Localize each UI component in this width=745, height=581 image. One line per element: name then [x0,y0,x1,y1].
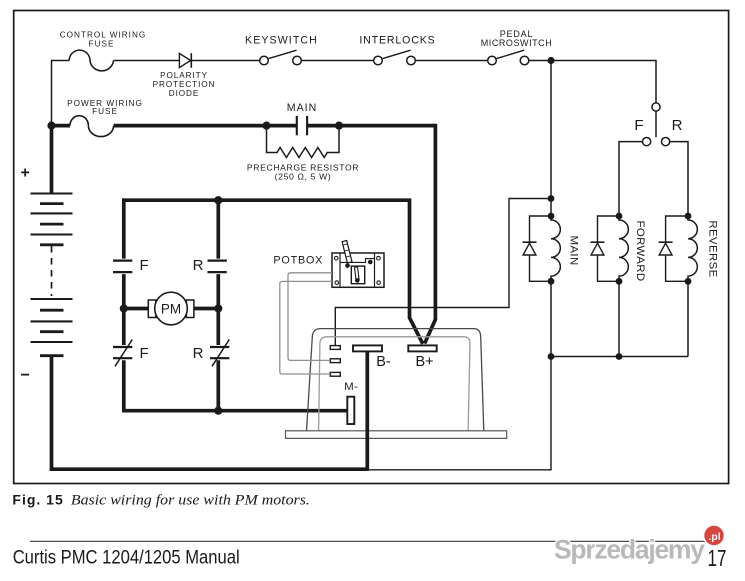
watermark logo circle pl [704,525,725,546]
wire bridge right middle [216,274,220,345]
label CONTROL WIRING FUSE [60,31,146,49]
svg-text:R: R [672,117,683,134]
wire bridge right lower [216,360,220,410]
svg-text:KEYSWITCH: KEYSWITCH [245,35,318,47]
wire main contact to B+ drop [307,124,435,128]
wire bridge bottom to M- [122,409,347,413]
wire B+ right drop [425,124,436,344]
wire B- riser [365,351,369,471]
diode FORWARD freewheel [591,216,620,281]
contact F upper [113,261,132,273]
wire down to FR selector [655,60,657,103]
node PM left [120,304,128,312]
node return bus forward [616,353,623,360]
node KSI junction [547,57,554,64]
wire bridge top bus [122,200,423,344]
wire power bus left [50,124,70,128]
label POWER WIRING FUSE [67,99,143,116]
svg-text:DIODE: DIODE [169,89,199,98]
terminal M- [347,397,354,424]
diode MAIN freewheel [523,216,552,281]
svg-text:M-: M- [344,381,358,393]
wire PM right stub [194,307,219,311]
wire power bus to main contact [114,124,297,128]
border frame [14,11,729,484]
wire KSI vertical [550,61,552,217]
controller inner shell [319,337,470,431]
svg-text:B-: B- [376,354,391,370]
svg-text:Fig. 15: Fig. 15 [12,492,63,508]
coil MAIN contactor [548,213,561,357]
fuse power wiring [70,116,114,137]
svg-text:R: R [193,345,204,362]
label PRECHARGE RESISTOR [247,163,359,182]
svg-text:Basic wiring for use with PM m: Basic wiring for use with PM motors. [71,492,310,509]
wire diode to keyswitch [192,60,260,62]
wire keyswitch to interlocks [301,60,373,62]
svg-text:17: 17 [708,545,727,571]
switch pedal microswitch [488,50,529,65]
wire potbox to pin2 [288,273,332,361]
node return bus left [548,353,555,360]
battery [31,194,73,356]
svg-text:F: F [634,117,643,134]
node PM right [214,304,222,312]
svg-text:MICROSWITCH: MICROSWITCH [481,38,553,48]
potbox wiper [355,267,360,283]
wire potbox to pin3 [280,281,332,374]
svg-text:FUSE: FUSE [89,39,115,48]
wire fuse to diode [114,60,180,62]
wire battery positive feed [50,126,54,195]
svg-text:POTBOX: POTBOX [273,255,323,267]
potbox body [332,253,384,287]
node bridge top right [214,196,222,204]
svg-text:Curtis PMC 1204/1205 Manual: Curtis PMC 1204/1205 Manual [13,547,240,569]
node battery positive junction [47,122,55,130]
wire bridge left middle [122,274,126,345]
potbox terminal dots [345,260,372,268]
diode REVERSE freewheel [659,216,688,281]
contact R upper [208,261,227,273]
controller base plate [286,431,507,439]
wire control branch vertical [51,61,53,126]
svg-text:F: F [140,345,149,362]
coil FORWARD contactor [616,213,629,357]
controller outer shell [307,329,484,431]
wire bridge right upper [216,200,220,258]
node KSI branch [548,195,555,202]
svg-text:FORWARD: FORWARD [634,220,646,281]
contact F lower with slash [113,340,132,367]
svg-text:POLARITY: POLARITY [160,71,208,80]
svg-text:CONTROL WIRING: CONTROL WIRING [60,31,146,40]
pin 3 controller [330,372,340,376]
wire F selector to forward coil [619,142,642,216]
wire R selector to reverse coil [670,142,688,216]
svg-text:Sprzedajemy: Sprzedajemy [554,535,705,565]
svg-text:+: + [21,165,30,182]
terminal B+ [408,345,436,351]
potbox lever [342,241,352,264]
svg-text:INTERLOCKS: INTERLOCKS [359,35,435,47]
label PEDAL MICROSWITCH [481,29,553,48]
terminal B- [353,345,382,351]
wire pedal to corner [529,60,656,62]
wire PM left stub [124,307,149,311]
wire coil return bus [551,356,688,358]
pin 2 controller [330,359,340,363]
motor PM [148,292,194,325]
svg-text:B+: B+ [416,354,434,370]
coil REVERSE contactor [685,213,698,357]
fuse control wiring [69,50,113,71]
svg-text:FUSE: FUSE [92,107,118,116]
label POLARITY PROTECTION DIODE [153,71,216,98]
contact R lower with slash [210,340,229,367]
resistor precharge [267,126,340,158]
footer rule [30,540,709,542]
switch keyswitch [260,50,302,65]
wire coil return to B- bus [369,357,551,470]
pin 1 controller [330,346,340,350]
svg-text:(250 Ω, 5 W): (250 Ω, 5 W) [275,171,332,181]
svg-text:−: − [21,367,30,384]
wire KSI to controller pin1 [335,199,551,346]
node precharge left [262,122,270,130]
node precharge right [335,122,343,130]
svg-text:R: R [193,257,204,274]
contact MAIN [297,116,307,135]
diode polarity protection [179,53,191,68]
svg-text:REVERSE: REVERSE [707,220,719,277]
svg-text:MAIN: MAIN [567,236,579,266]
svg-text:PM: PM [161,302,181,317]
wire interlocks to pedal microswitch [415,60,487,62]
svg-text:.pl: .pl [708,531,720,543]
wire bridge left lower [122,360,126,412]
svg-text:MAIN: MAIN [287,102,317,114]
wire battery negative to bottom bus [52,356,369,470]
switch interlocks [374,50,416,65]
node bridge bottom right [214,407,222,415]
svg-text:PROTECTION: PROTECTION [153,80,216,89]
wire bridge left upper [122,198,126,258]
switch forward reverse selector [643,103,670,146]
svg-text:F: F [140,257,149,274]
wire control to fuse [51,60,69,62]
